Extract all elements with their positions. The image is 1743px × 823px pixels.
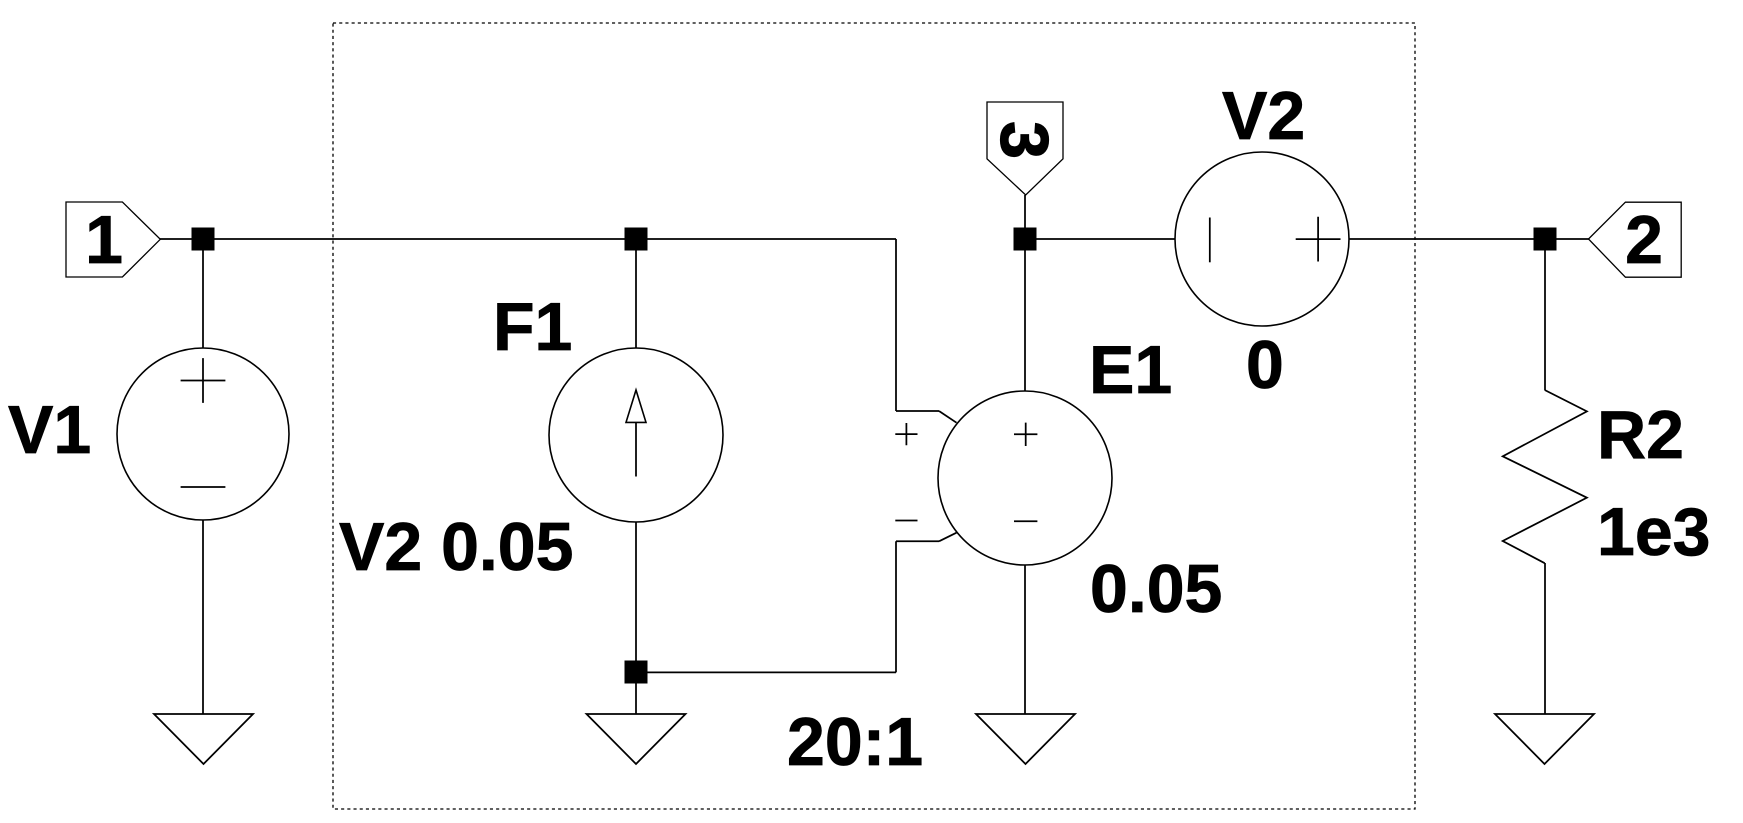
svg-text:0.05: 0.05 [1090, 551, 1222, 627]
current source F1 circle [549, 348, 723, 522]
svg-text:V2 0.05: V2 0.05 [339, 509, 573, 585]
flag port 1 [66, 202, 160, 277]
svg-text:20:1: 20:1 [787, 704, 923, 780]
wire E1 plus-control horizontal [896, 410, 939, 412]
wire R2 top stub [1544, 239, 1546, 390]
ground below V1 [154, 714, 253, 764]
svg-text:1: 1 [85, 202, 123, 278]
E1 control minus sign [895, 520, 917, 522]
svg-text:E1: E1 [1089, 332, 1172, 408]
wire F1 top stub [635, 239, 637, 348]
wire E1 plus-control vertical [895, 239, 897, 411]
wire V1 top stub [202, 239, 204, 348]
V1 plus sign [181, 358, 226, 403]
svg-text:2: 2 [1625, 202, 1663, 278]
wire V2 to node2 [1349, 238, 1589, 240]
svg-text:3: 3 [987, 121, 1063, 159]
F1 arrow shaft [635, 422, 637, 476]
voltage source V2 circle [1175, 152, 1349, 326]
junction node 3 [1014, 228, 1037, 251]
flag port 3 [987, 102, 1063, 195]
flag port 2 [1589, 202, 1682, 277]
wire E1 bottom to ground [1024, 565, 1026, 714]
ground below F1 [587, 714, 686, 764]
E1 inner minus [1014, 520, 1037, 522]
junction node 2 [1534, 228, 1557, 251]
wire main horizontal node1 [160, 238, 896, 240]
wire node3 to V2 [1025, 238, 1175, 240]
V2 plus sign [1296, 217, 1341, 262]
wire E1 plus-control diagonal [939, 411, 957, 423]
junction F1 bottom [625, 661, 648, 684]
ground below R2 [1495, 714, 1594, 764]
wire E1 top stub [1024, 239, 1026, 391]
wire E1 minus-control horizontal [896, 540, 939, 542]
wire R2 bottom to ground [1544, 563, 1546, 714]
wire flag3 stem [1024, 195, 1026, 239]
V1 minus sign [181, 486, 226, 488]
E1 control plus sign [895, 423, 917, 445]
subcircuit dashed box [333, 23, 1415, 809]
svg-text:V1: V1 [8, 392, 91, 468]
junction F1 top [625, 228, 648, 251]
wire E1 minus-control vertical [895, 541, 897, 672]
svg-text:F1: F1 [493, 289, 572, 365]
wire V1 bottom to ground [202, 520, 204, 714]
svg-text:V2: V2 [1222, 78, 1305, 154]
wire E1 minus-control diagonal [939, 533, 957, 542]
wire F1 bottom stub [635, 522, 637, 714]
svg-text:0: 0 [1246, 327, 1284, 403]
ground below E1 [976, 714, 1075, 764]
svg-text:R2: R2 [1597, 397, 1684, 473]
junction node 1 [192, 228, 215, 251]
VCVS E1 circle [938, 391, 1112, 565]
svg-text:1e3: 1e3 [1597, 494, 1710, 570]
F1 arrow head [626, 390, 646, 422]
resistor R2 zigzag [1503, 390, 1587, 563]
wire bottom return to F1 [636, 671, 896, 673]
voltage source V1 circle [117, 348, 289, 520]
V2 minus bar [1209, 218, 1211, 263]
E1 inner plus [1014, 423, 1037, 446]
